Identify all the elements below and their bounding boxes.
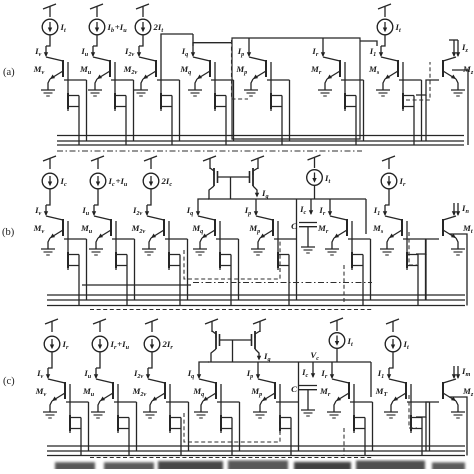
svg-text:(b): (b) xyxy=(2,227,15,238)
svg-text:C: C xyxy=(291,221,297,231)
svg-text:(c): (c) xyxy=(3,376,15,387)
svg-text:(a): (a) xyxy=(3,67,15,78)
svg-text:C: C xyxy=(291,384,297,394)
